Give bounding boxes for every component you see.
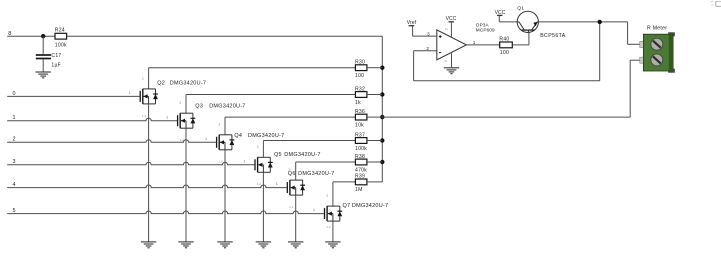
- svg-text:BCP56TA: BCP56TA: [540, 33, 566, 39]
- wire net 8 to R24: [7, 35, 55, 37]
- pin 1 label Q5: [243, 159, 245, 163]
- resistor R39: [355, 174, 367, 194]
- svg-text:100: 100: [355, 73, 364, 79]
- pin mark drain Q2: [142, 77, 144, 81]
- svg-text:DMG3420U-7: DMG3420U-7: [248, 133, 284, 139]
- wire feedback pin 2: [414, 22, 600, 81]
- label Q3 DMG3420U-7: [195, 103, 245, 109]
- net label 4: [13, 182, 16, 188]
- junction net 8 / C17: [41, 34, 45, 38]
- junction bus / R38: [380, 160, 384, 164]
- pin mark drain Q3: [179, 101, 181, 105]
- svg-text:DMG3420U-7: DMG3420U-7: [284, 152, 320, 158]
- svg-text:Q6: Q6: [288, 171, 296, 177]
- wire drain Q5 to R37: [263, 141, 355, 158]
- pin 1 label Q7: [313, 208, 315, 212]
- wire C17 lead top: [42, 36, 44, 54]
- wire drain Q7 to R39: [333, 182, 356, 206]
- wire op-amp V- to ground: [451, 53, 453, 67]
- wire source Q3: [185, 128, 187, 242]
- svg-text:1µF: 1µF: [51, 63, 61, 69]
- svg-text:1,2: 1,2: [289, 205, 294, 209]
- junction bus / R32: [380, 92, 384, 96]
- transistor Q1: [517, 5, 566, 39]
- pin 2 label U1: [426, 46, 429, 51]
- svg-text:1: 1: [129, 91, 131, 95]
- resistor R30: [355, 60, 367, 80]
- svg-text:DMG3420U-7: DMG3420U-7: [170, 81, 206, 87]
- wire net 3: [7, 162, 254, 165]
- svg-text:C17: C17: [51, 53, 61, 59]
- svg-text:2: 2: [426, 46, 429, 51]
- net label 3: [13, 159, 16, 165]
- wire bus vertical: [381, 36, 383, 182]
- ground Q6: [288, 242, 303, 248]
- wire C17 lead bottom: [42, 59, 44, 71]
- svg-text:1: 1: [313, 208, 315, 212]
- ground Q7: [325, 242, 340, 248]
- svg-text:R30: R30: [355, 60, 365, 66]
- svg-text:100k: 100k: [55, 42, 67, 48]
- resistor R36: [355, 109, 367, 128]
- pin mark V- U1: [445, 59, 448, 63]
- op-amp OP3A: [437, 23, 495, 60]
- svg-text:Q5: Q5: [274, 152, 282, 158]
- wire net 1: [7, 118, 177, 121]
- svg-text:1,2: 1,2: [142, 114, 147, 118]
- wire source Q2: [148, 104, 150, 242]
- svg-text:R Meter: R Meter: [647, 26, 667, 32]
- svg-text:1M: 1M: [355, 187, 363, 193]
- junction bus / R37: [380, 138, 384, 142]
- svg-text:R40: R40: [499, 36, 509, 42]
- transistor Q6: [287, 180, 305, 195]
- ground Q5: [256, 242, 271, 248]
- wire source Q6: [295, 195, 297, 242]
- pin 1 label Q2: [129, 91, 131, 95]
- pin mark drain Q7: [326, 194, 328, 198]
- pin mark source Q2: [142, 114, 147, 118]
- transistor Q2: [140, 89, 158, 104]
- net label 8: [8, 31, 11, 37]
- svg-text:Q2: Q2: [157, 81, 165, 87]
- svg-text:P-: P-: [445, 59, 448, 63]
- svg-text:3: 3: [179, 101, 181, 105]
- transistor Q5: [255, 157, 273, 172]
- partial element top-right: [710, 1, 721, 6]
- wire R30 to bus: [367, 67, 382, 69]
- ground Q4: [217, 242, 232, 248]
- wire R38 to bus: [367, 161, 382, 163]
- wire Q1 emitter to junction: [538, 21, 627, 23]
- wire net 2: [7, 140, 216, 143]
- wire R40 to Q1 base: [512, 32, 529, 45]
- connector R Meter: [640, 26, 675, 73]
- wire drain Q3 to R32: [186, 95, 355, 114]
- svg-text:DMG3420U-7: DMG3420U-7: [298, 171, 334, 177]
- wire net 5: [7, 211, 324, 214]
- pin mark source Q5: [257, 182, 262, 186]
- ground Q3: [178, 242, 193, 248]
- svg-text:1: 1: [205, 137, 207, 141]
- svg-text:R36: R36: [355, 109, 365, 115]
- svg-text:10k: 10k: [355, 122, 364, 128]
- label Q7 DMG3420U-7: [343, 203, 389, 209]
- wire op-amp out to R40: [466, 44, 499, 46]
- svg-text:R37: R37: [355, 132, 365, 138]
- svg-text:100k: 100k: [355, 146, 367, 152]
- svg-text:1,2: 1,2: [326, 225, 331, 229]
- svg-text:100: 100: [500, 50, 509, 56]
- resistor R32: [355, 86, 367, 106]
- label Q6 DMG3420U-7: [288, 171, 335, 177]
- wire net 0: [7, 95, 139, 97]
- junction bus / R36: [380, 115, 384, 119]
- wire R32 to bus: [367, 94, 382, 96]
- svg-text:3: 3: [427, 31, 430, 36]
- supply VCC Q1: [495, 10, 506, 22]
- net label 1: [13, 115, 16, 121]
- wire R24 to bus: [67, 35, 383, 37]
- svg-text:Q7: Q7: [343, 203, 351, 209]
- pin 1 label Q3: [166, 115, 168, 119]
- wire Vref to pin 3: [413, 35, 437, 37]
- svg-text:R38: R38: [355, 154, 365, 160]
- junction emitter node: [598, 20, 602, 24]
- pin 3 label U1: [427, 31, 430, 36]
- svg-text:1: 1: [166, 115, 168, 119]
- wire VCC to Q1 collector: [499, 21, 517, 23]
- net label 5: [13, 208, 16, 214]
- wire source Q4: [224, 150, 226, 242]
- svg-text:Vref: Vref: [407, 20, 417, 26]
- resistor R38: [355, 154, 367, 174]
- wire bus to R meter pin 2: [382, 60, 640, 117]
- wire source Q7: [332, 221, 334, 242]
- capacitor C17: [36, 53, 62, 68]
- wire R36 to bus: [367, 116, 382, 118]
- net label 2: [13, 137, 16, 143]
- supply VCC op-amp: [446, 16, 457, 37]
- label Q4 DMG3420U-7: [234, 133, 284, 139]
- pin 1 label Q6: [276, 182, 278, 186]
- transistor Q3: [178, 113, 196, 128]
- svg-text:Q3: Q3: [195, 103, 203, 109]
- svg-text:R24: R24: [55, 28, 65, 34]
- pin 1 label U1: [473, 40, 476, 45]
- wire source Q5: [262, 172, 264, 242]
- wire drain Q4 to R36: [225, 117, 355, 135]
- label Q2 DMG3420U-7: [157, 81, 206, 87]
- ground Q2: [141, 242, 156, 248]
- svg-text:3: 3: [142, 77, 144, 81]
- pin mark drain Q6: [289, 168, 291, 172]
- supply Vref: [407, 20, 417, 36]
- svg-text:3: 3: [218, 123, 220, 127]
- transistor Q4: [217, 135, 235, 150]
- pin mark drain Q5: [257, 145, 259, 149]
- svg-text:1,2: 1,2: [218, 160, 223, 164]
- svg-text:1: 1: [243, 159, 245, 163]
- wire R37 to bus: [367, 140, 382, 142]
- resistor R24: [55, 28, 67, 49]
- pin mark source Q4: [218, 160, 223, 164]
- svg-text:Q4: Q4: [234, 133, 242, 139]
- pin mark source Q7: [326, 225, 331, 229]
- svg-text:1k: 1k: [355, 100, 361, 106]
- svg-text:DMG3420U-7: DMG3420U-7: [209, 103, 245, 109]
- svg-text:DMG3420U-7: DMG3420U-7: [352, 203, 388, 209]
- svg-text:3: 3: [257, 145, 259, 149]
- svg-text:3: 3: [326, 194, 328, 198]
- wire R39 to bus: [367, 181, 382, 183]
- svg-text:Q1: Q1: [517, 5, 524, 11]
- svg-text:470k: 470k: [355, 167, 367, 173]
- junction bus / R30: [380, 66, 384, 70]
- wire drain Q2 to R30: [149, 68, 356, 89]
- label Q5 DMG3420U-7: [274, 152, 321, 158]
- pin 1 label Q4: [205, 137, 207, 141]
- resistor R37: [355, 132, 367, 152]
- svg-text:MCP609: MCP609: [476, 28, 495, 33]
- wire net 4: [7, 185, 287, 188]
- svg-text:1,2: 1,2: [257, 182, 262, 186]
- svg-text:1: 1: [473, 40, 476, 45]
- svg-text:R32: R32: [355, 86, 365, 92]
- pin mark V+ U1: [445, 27, 449, 31]
- svg-text:R39: R39: [355, 174, 365, 180]
- svg-text:1: 1: [276, 182, 278, 186]
- resistor R40: [499, 36, 512, 56]
- pin mark source Q6: [289, 205, 294, 209]
- transistor Q7: [325, 206, 343, 221]
- wire drain Q6 to R38: [296, 162, 356, 180]
- net label 0: [13, 91, 16, 97]
- pin mark source Q3: [179, 138, 184, 142]
- ground C17: [36, 72, 51, 78]
- wire to R meter pin 1: [628, 22, 640, 44]
- ground op-amp: [444, 68, 459, 74]
- svg-text:P+: P+: [445, 27, 449, 31]
- pin mark drain Q4: [218, 123, 220, 127]
